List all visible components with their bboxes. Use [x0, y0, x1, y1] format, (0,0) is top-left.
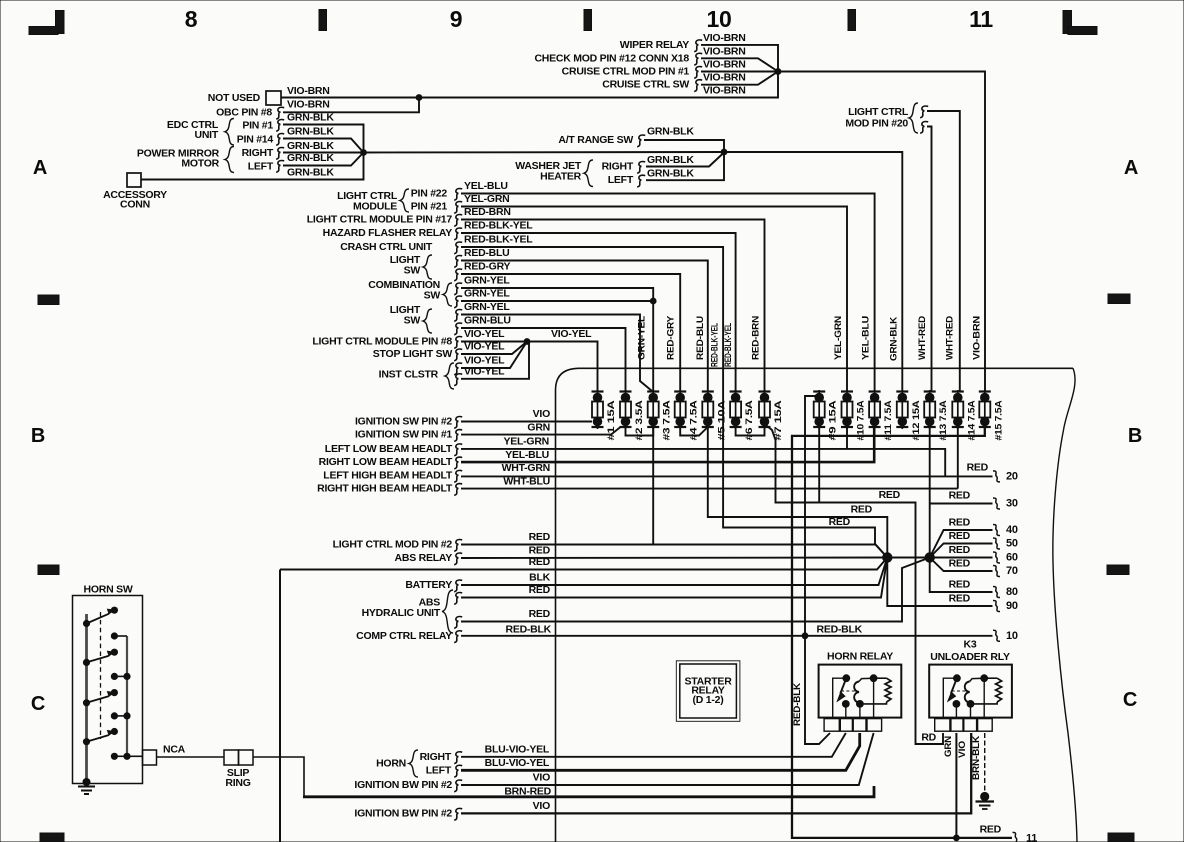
- connector hook CRUISE CTRL MOD PIN #1: [694, 67, 702, 79]
- node: VIO-BRN splice junction (wiper group): [775, 68, 782, 75]
- svg-text:VIO-YEL: VIO-YEL: [464, 341, 505, 353]
- svg-text:A: A: [33, 157, 47, 179]
- wire YEL-BLU to fuse 11: [461, 194, 875, 393]
- svg-text:YEL-BLU: YEL-BLU: [861, 316, 872, 360]
- terminal hook 11: [1013, 832, 1020, 842]
- svg-text:CRUISE CTRL MOD PIN #1: CRUISE CTRL MOD PIN #1: [562, 66, 690, 78]
- wire RED from fuse7/fuse6 to K3 unloader relay pin1: [765, 424, 944, 744]
- brace LIGHT CTRL MODULE: [400, 189, 409, 212]
- wire GRN from K3 pin2 to terminal 11 row: [955, 733, 957, 838]
- wire RED-BLK comp ctrl relay to terminal 10: [461, 635, 993, 637]
- svg-text:YEL-GRN: YEL-GRN: [833, 316, 844, 360]
- svg-text:GRN-BLK: GRN-BLK: [647, 154, 694, 166]
- svg-text:CRUISE CTRL SW: CRUISE CTRL SW: [602, 79, 689, 91]
- svg-text:RED: RED: [949, 579, 971, 591]
- node: splice X1: [882, 552, 892, 562]
- svg-text:RED: RED: [529, 584, 551, 596]
- brace WASHER JET HEATER: [584, 160, 593, 187]
- wire GRN-BLK washer left: [646, 152, 724, 180]
- wire stub fuse10 bottom: [846, 424, 848, 449]
- svg-text:STOP LIGHT SW: STOP LIGHT SW: [373, 348, 453, 360]
- svg-text:LEFT LOW BEAM HEADLT: LEFT LOW BEAM HEADLT: [325, 443, 453, 455]
- svg-text:#4 7.5A: #4 7.5A: [689, 400, 699, 441]
- svg-text:SW: SW: [424, 290, 441, 302]
- svg-text:RIGHT LOW BEAM HEADLT: RIGHT LOW BEAM HEADLT: [319, 456, 453, 468]
- horn switch output to NCA connector: [127, 755, 143, 757]
- connector hook IGNITION SW PIN #1: [454, 430, 462, 442]
- wire RED-BLK-YEL from CRASH CTRL UNIT (to splice): [461, 247, 875, 544]
- svg-text:RED-BLK-YEL: RED-BLK-YEL: [709, 323, 720, 367]
- terminal hook 70: [993, 566, 1000, 577]
- right edge tick B/C: [1107, 565, 1129, 575]
- svg-text:LIGHT CTRL MOD PIN #2: LIGHT CTRL MOD PIN #2: [333, 539, 453, 551]
- connector hook row y=206.5: [454, 202, 462, 214]
- connector hook PIN #14: [276, 134, 284, 146]
- terminal hook 40: [993, 525, 1000, 536]
- brace LIGHT CTRL MOD PIN #20: [909, 103, 918, 133]
- wire GRN-BLK from RIGHT: [283, 152, 364, 154]
- connector hook row y=260.5: [454, 256, 462, 268]
- svg-text:RED: RED: [529, 545, 551, 557]
- svg-text:RED-BLU: RED-BLU: [695, 316, 706, 360]
- svg-text:RED: RED: [949, 558, 971, 570]
- svg-text:#15 7.5A: #15 7.5A: [993, 400, 1003, 441]
- connector hook row y=274.0: [454, 269, 462, 281]
- svg-text:IGNITION SW PIN #1: IGNITION SW PIN #1: [355, 429, 452, 441]
- fuse F2 #2 3.5A: [620, 390, 645, 441]
- svg-text:RIGHT HIGH BEAM HEADLT: RIGHT HIGH BEAM HEADLT: [317, 483, 453, 495]
- svg-text:RED: RED: [949, 490, 971, 502]
- svg-text:#6 7.5A: #6 7.5A: [744, 400, 754, 441]
- node: RED-BLK junction: [802, 632, 809, 639]
- svg-text:RED: RED: [851, 504, 873, 516]
- terminal hook 10: [993, 630, 1000, 641]
- svg-text:RED-GRY: RED-GRY: [464, 261, 511, 273]
- svg-text:NCA: NCA: [163, 744, 186, 756]
- fuse F13 #13 7.5A: [924, 390, 949, 441]
- svg-text:60: 60: [1006, 552, 1018, 564]
- wire RED-BLK-YEL to fuse 6: [461, 233, 736, 392]
- svg-text:RED: RED: [949, 593, 971, 605]
- bottom-left corner bar: [40, 833, 64, 842]
- connector hook WIPER RELAY: [694, 40, 702, 52]
- connector hook OBC PIN #8: [276, 107, 284, 119]
- svg-text:RIGHT: RIGHT: [420, 751, 452, 763]
- wire GRN-YEL (light sw) to fuse 3: [461, 315, 653, 393]
- svg-text:GRN-YEL: GRN-YEL: [636, 316, 647, 360]
- svg-text:VIO-YEL: VIO-YEL: [464, 328, 505, 340]
- svg-text:K3: K3: [964, 639, 977, 651]
- connector ACCESSORY CONN (square): [127, 173, 141, 187]
- fuse F12 #12 15A: [896, 390, 921, 441]
- terminal hook 60: [993, 552, 1000, 563]
- svg-text:11: 11: [1026, 833, 1037, 842]
- wire VIO-BRN from CRUISE CTRL MOD PIN #1: [701, 71, 778, 73]
- wire BLU-VIO-YEL horn left to relay pin3: [461, 733, 860, 770]
- fuse F5 #5 10A: [702, 390, 727, 441]
- right edge tick A/B: [1108, 294, 1130, 304]
- svg-text:VIO: VIO: [957, 740, 968, 758]
- svg-text:VIO-BRN: VIO-BRN: [703, 85, 746, 97]
- corner mark top-right: [1063, 11, 1097, 35]
- wire YEL-GRN left low beam to fuse10 / terminal 20: [461, 449, 945, 477]
- svg-text:UNIT: UNIT: [195, 129, 219, 141]
- svg-text:VIO-BRN: VIO-BRN: [703, 59, 746, 71]
- horn switch left rail: [85, 614, 88, 782]
- connector hook IGNITION SW PIN #2: [454, 417, 462, 429]
- fuse F14 #14 7.5A: [952, 390, 977, 441]
- svg-text:BATTERY: BATTERY: [405, 579, 452, 591]
- relay K3 UNLOADER RLY: [929, 639, 1012, 732]
- connector hook LEFT LOW BEAM HEADLT: [454, 444, 462, 456]
- svg-text:#10 7.5A: #10 7.5A: [856, 400, 866, 441]
- svg-text:BLK: BLK: [529, 572, 550, 584]
- wire VIO-BRN from CRUISE CTRL SW: [701, 72, 778, 85]
- svg-text:GRN-BLK: GRN-BLK: [889, 317, 900, 361]
- wire BRN-BLK from K3 pin4 to ground: [984, 733, 986, 793]
- connector hook row y=354.0: [454, 349, 462, 361]
- svg-text:B: B: [31, 425, 45, 447]
- svg-text:YEL-GRN: YEL-GRN: [464, 193, 510, 205]
- fuse F4 #4 7.5A: [674, 390, 699, 441]
- svg-text:C: C: [1123, 689, 1137, 711]
- long vertical wire at far left: [279, 570, 281, 842]
- node: GRN-BLK junction A/T: [721, 149, 728, 156]
- wire GRN-YEL to fuse 3: [461, 288, 653, 392]
- corner mark top-left: [29, 11, 64, 35]
- svg-text:GRN-BLK: GRN-BLK: [647, 125, 694, 137]
- horn switch contact 3: [83, 699, 90, 706]
- svg-text:RED-BRN: RED-BRN: [464, 206, 511, 218]
- svg-text:WHT-RED: WHT-RED: [917, 316, 928, 360]
- connector hook PIN20 a: [920, 106, 928, 118]
- svg-text:MODULE: MODULE: [353, 201, 397, 213]
- svg-text:RING: RING: [225, 777, 250, 789]
- wire RED-BLU to fuse 5: [461, 261, 708, 393]
- svg-text:RED: RED: [529, 608, 551, 620]
- svg-text:IGNITION BW PIN #2: IGNITION BW PIN #2: [354, 779, 452, 791]
- wire X1 down to terminal 90: [887, 558, 992, 607]
- wire GRN-BLK from A/T RANGE SW: [644, 140, 724, 152]
- wire YEL-GRN to fuse 10: [461, 207, 847, 393]
- svg-text:GRN-YEL: GRN-YEL: [464, 275, 510, 287]
- wire BLK battery to splice X1: [461, 558, 887, 586]
- wire RED abs hydralic b to splice X2: [461, 558, 930, 622]
- wire stub fuse14 bottom: [957, 424, 959, 489]
- wire VIO-BRN main run to fuse 15: [778, 72, 985, 393]
- wire from slip ring to BRN-RED row: [253, 757, 304, 796]
- svg-text:A/T RANGE SW: A/T RANGE SW: [558, 134, 633, 146]
- svg-text:PIN #21: PIN #21: [411, 201, 448, 213]
- terminal hook 80: [993, 587, 1000, 598]
- top ruler tick between 8 and 9: [319, 10, 327, 31]
- wire GRN-BLK bus to A/T junction: [364, 151, 725, 154]
- left edge tick A/B: [38, 295, 59, 305]
- svg-text:GRN: GRN: [527, 421, 550, 433]
- svg-text:GRN-YEL: GRN-YEL: [464, 301, 510, 313]
- terminal hook 30: [993, 498, 1000, 509]
- wire RED from fuse5 to splice X1: [708, 424, 888, 558]
- svg-text:GRN-YEL: GRN-YEL: [464, 288, 510, 300]
- svg-text:BRN-BLK: BRN-BLK: [971, 736, 982, 780]
- svg-text:PIN #1: PIN #1: [242, 120, 273, 132]
- svg-text:VIO-BRN: VIO-BRN: [703, 32, 746, 44]
- svg-text:50: 50: [1006, 538, 1018, 550]
- svg-text:RED: RED: [949, 530, 971, 542]
- svg-text:RIGHT: RIGHT: [242, 147, 274, 159]
- svg-text:OBC PIN #8: OBC PIN #8: [216, 106, 272, 118]
- svg-text:VIO-BRN: VIO-BRN: [703, 72, 746, 84]
- svg-text:11: 11: [969, 6, 993, 32]
- fuse F7 #7 15A: [759, 390, 784, 441]
- wire VIO ignition bw pin2 (2) to K3 pin3: [461, 733, 971, 813]
- wire bracket fuse4-fuse5 bottoms: [680, 424, 708, 436]
- connector hook row y=301.0: [454, 296, 462, 308]
- svg-text:WIPER RELAY: WIPER RELAY: [620, 39, 689, 51]
- svg-text:SW: SW: [404, 265, 421, 277]
- node: VIO-YEL junction: [524, 338, 531, 345]
- brace LIGHT SW upper: [423, 255, 432, 279]
- connector hook row y=247.0: [454, 242, 462, 254]
- svg-text:HORN: HORN: [376, 758, 406, 770]
- svg-text:90: 90: [1006, 600, 1018, 612]
- connector hook row y=368.0: [454, 363, 462, 375]
- svg-text:10: 10: [706, 6, 731, 32]
- svg-text:#5 10A: #5 10A: [716, 400, 726, 441]
- svg-text:LEFT HIGH BEAM HEADLT: LEFT HIGH BEAM HEADLT: [323, 469, 453, 481]
- connector NOT USED (square): [266, 91, 281, 105]
- connector hook RIGHT HIGH BEAM HEADLT: [454, 484, 462, 496]
- svg-text:IGNITION SW PIN #2: IGNITION SW PIN #2: [355, 416, 452, 428]
- terminal hook 20: [993, 471, 1000, 482]
- svg-text:GRN-BLK: GRN-BLK: [287, 126, 334, 138]
- svg-text:RED-BLK: RED-BLK: [506, 624, 552, 636]
- svg-text:RED-BLK-YEL: RED-BLK-YEL: [464, 220, 533, 232]
- svg-text:SW: SW: [404, 315, 421, 327]
- svg-text:GRN-BLK: GRN-BLK: [647, 167, 694, 179]
- wire GRN-BLK from ACCESSORY CONN: [141, 153, 364, 180]
- svg-text:RED: RED: [949, 544, 971, 556]
- svg-text:HEATER: HEATER: [540, 171, 582, 183]
- svg-text:CONN: CONN: [120, 199, 150, 211]
- svg-text:LIGHT CTRL MODULE PIN #8: LIGHT CTRL MODULE PIN #8: [312, 336, 452, 348]
- svg-text:RED-BLU: RED-BLU: [464, 247, 510, 259]
- svg-text:20: 20: [1006, 470, 1018, 482]
- wire stub fuse3 bottom to row: [652, 424, 654, 545]
- connector hook PIN #1: [276, 120, 284, 132]
- svg-text:9: 9: [450, 6, 463, 32]
- connector hook RIGHT washer: [637, 162, 645, 174]
- ground symbol below K3: [980, 792, 989, 801]
- wire RED from fuse15 to terminal 11: [792, 424, 1012, 838]
- connector hook LEFT (mirror): [276, 161, 284, 173]
- svg-text:PIN #22: PIN #22: [411, 188, 448, 200]
- svg-text:#9 15A: #9 15A: [828, 400, 838, 441]
- svg-text:#2 3.5A: #2 3.5A: [634, 400, 644, 441]
- wire VIO-YEL stop light sw: [461, 342, 527, 355]
- wire VIO-YEL to fuse 1: [461, 342, 598, 393]
- svg-text:BLU-VIO-YEL: BLU-VIO-YEL: [485, 757, 550, 769]
- svg-text:GRN-BLK: GRN-BLK: [287, 152, 334, 164]
- svg-text:LIGHT CTRL MODULE PIN #17: LIGHT CTRL MODULE PIN #17: [307, 214, 453, 226]
- svg-text:BRN-RED: BRN-RED: [504, 785, 551, 797]
- svg-text:RED: RED: [879, 489, 901, 501]
- svg-text:RED: RED: [980, 824, 1002, 836]
- connector hook row y=288.0: [454, 283, 462, 295]
- wire X2 down to terminal 80: [930, 558, 993, 593]
- horn switch box: [73, 596, 143, 784]
- wire VIO-BRN from WIPER RELAY: [701, 45, 778, 72]
- wire BLU-VIO-YEL horn right to relay pin2: [461, 733, 846, 757]
- fuse F1 #1 15A: [592, 390, 617, 441]
- svg-text:HYDRALIC UNIT: HYDRALIC UNIT: [362, 607, 441, 619]
- svg-text:HORN SW: HORN SW: [84, 584, 133, 596]
- horn switch contact 1: [83, 620, 90, 627]
- node: GRN-BLK junction mirror group: [360, 149, 367, 156]
- svg-text:RED-BLK: RED-BLK: [817, 624, 863, 636]
- svg-text:RED: RED: [829, 516, 851, 528]
- wire RED abs relay through splice X1 X2 to terminal 60: [461, 557, 993, 560]
- connector hook CHECK MOD PIN #12 CONN X18: [694, 53, 702, 65]
- wire VIO-BRN from CHECK MOD PIN #12 CONN X18: [701, 58, 778, 71]
- wire X2 to terminal 50: [930, 544, 993, 558]
- wire RED-BLK down to horn relay pin1: [805, 636, 830, 744]
- torn page edge: [1053, 368, 1077, 842]
- brace COMBINATION SW: [443, 283, 452, 306]
- svg-text:PIN #14: PIN #14: [237, 134, 274, 146]
- wire VIO-BRN from NOT USED: [281, 72, 778, 98]
- svg-text:(D 1-2): (D 1-2): [693, 694, 724, 706]
- wire YEL-BLU right low beam to fuse 11: [461, 424, 874, 462]
- svg-text:70: 70: [1006, 565, 1018, 577]
- svg-text:RD: RD: [921, 732, 936, 744]
- svg-text:MOD PIN #20: MOD PIN #20: [845, 118, 908, 130]
- fuse F11 #11 7.5A: [869, 390, 894, 441]
- connector hook row y=219.5: [454, 215, 462, 227]
- connector hook LEFT washer: [637, 175, 645, 187]
- starter relay box: [680, 664, 737, 718]
- brace HORN: [409, 750, 418, 777]
- svg-text:#12 15A: #12 15A: [911, 400, 921, 441]
- wire VIO ignition sw pin2 to fuse1: [461, 421, 592, 423]
- svg-text:GRN-BLK: GRN-BLK: [287, 140, 334, 152]
- connector hook A/T RANGE SW: [637, 135, 645, 147]
- svg-text:VIO: VIO: [533, 408, 550, 420]
- svg-text:NOT USED: NOT USED: [208, 92, 261, 104]
- wire WHT-BLU right high beam: [461, 488, 958, 490]
- fuse F6 #6 7.5A: [730, 390, 755, 441]
- horn switch right rail: [126, 636, 128, 757]
- connector hook row y=233.0: [454, 228, 462, 240]
- svg-text:IGNITION BW PIN #2: IGNITION BW PIN #2: [354, 807, 452, 819]
- connector hook row y=378.8: [454, 374, 462, 386]
- fuse F9 #9 15A: [813, 390, 838, 441]
- svg-text:COMP CTRL RELAY: COMP CTRL RELAY: [356, 630, 452, 642]
- wire fuse9 bottom down to K3 feed line: [818, 424, 820, 503]
- wire VIO-BRN from OBC PIN #8: [283, 98, 419, 113]
- terminal hook 50: [993, 538, 1000, 549]
- wire X2 to terminal 70: [930, 558, 993, 572]
- svg-text:CHECK MOD PIN #12 CONN X18: CHECK MOD PIN #12 CONN X18: [534, 52, 689, 64]
- wire RED-BRN to fuse 7: [461, 220, 765, 393]
- wire fuse9 top bracket down to RED-BLK row: [805, 396, 816, 636]
- brace INST CLSTR: [445, 363, 454, 389]
- svg-text:GRN: GRN: [943, 736, 954, 757]
- connector hook RIGHT LOW BEAM HEADLT: [454, 457, 462, 469]
- svg-text:BLU-VIO-YEL: BLU-VIO-YEL: [485, 743, 550, 755]
- connector hook CRUISE CTRL SW: [694, 80, 702, 92]
- wire RED fuse13 to terminal 30 and splice X2: [929, 424, 931, 558]
- svg-text:YEL-BLU: YEL-BLU: [464, 180, 508, 192]
- svg-text:GRN-BLU: GRN-BLU: [464, 315, 511, 327]
- node: splice X2: [925, 552, 935, 562]
- wire RED light ctrl mod pin2 to splice X1: [461, 545, 887, 558]
- wire BRN-RED row: [303, 786, 874, 797]
- svg-text:HAZARD FLASHER RELAY: HAZARD FLASHER RELAY: [323, 227, 453, 239]
- connector hook RIGHT (mirror): [276, 148, 284, 160]
- wire X2 to terminal 40: [930, 530, 993, 558]
- svg-text:RED-BLK-YEL: RED-BLK-YEL: [723, 323, 734, 367]
- connector hook PIN20 b: [920, 122, 928, 134]
- node: junction on terminal 11 row: [953, 835, 960, 842]
- wire GRN ignition sw pin1 to fuses 2-3: [461, 427, 621, 435]
- svg-text:RED: RED: [949, 517, 971, 529]
- svg-text:30: 30: [1006, 498, 1018, 510]
- wire GRN-BLK from PIN #1: [283, 125, 364, 153]
- svg-text:RED: RED: [529, 556, 551, 568]
- brace EDC CTRL UNIT: [225, 119, 234, 146]
- svg-text:VIO-BRN: VIO-BRN: [287, 98, 330, 110]
- wire WHT-GRN left high beam to terminal 20: [461, 475, 993, 477]
- svg-text:A: A: [1124, 157, 1138, 179]
- svg-text:RED-BLK-YEL: RED-BLK-YEL: [464, 234, 533, 246]
- horn switch contact 4: [83, 738, 90, 745]
- wire bracket fuse6-fuse7 bottoms: [736, 424, 765, 436]
- svg-text:YEL-GRN: YEL-GRN: [504, 436, 550, 448]
- svg-text:B: B: [1128, 425, 1142, 447]
- connector hook row y=341.5: [454, 337, 462, 349]
- fuse F15 #15 7.5A: [979, 390, 1004, 441]
- top ruler tick between 10 and 11: [848, 10, 856, 31]
- top ruler tick between 9 and 10: [584, 10, 592, 31]
- connector hook LEFT HIGH BEAM HEADLT: [454, 470, 462, 482]
- svg-text:VIO-BRN: VIO-BRN: [287, 85, 330, 97]
- wire RED abs hydralic a to splice X1: [461, 558, 887, 598]
- wire RED-GRY to fuse 4: [461, 274, 680, 392]
- wire WHT-RED to fuse 14: [927, 111, 960, 392]
- wire VIO-YEL inst clstr b: [461, 342, 529, 379]
- svg-text:VIO: VIO: [533, 800, 550, 812]
- left edge tick B/C: [38, 565, 59, 575]
- svg-text:WHT-RED: WHT-RED: [945, 316, 956, 360]
- svg-text:RED: RED: [529, 531, 551, 543]
- svg-text:WHT-GRN: WHT-GRN: [502, 462, 550, 474]
- horn switch dashed rail: [100, 612, 102, 739]
- svg-text:8: 8: [185, 6, 198, 32]
- wire RED crash line into splice X1: [875, 544, 887, 558]
- svg-text:VIO: VIO: [533, 772, 550, 784]
- svg-text:RED-BRN: RED-BRN: [750, 316, 761, 360]
- svg-text:#14 7.5A: #14 7.5A: [966, 400, 976, 441]
- bottom-right corner bar: [1108, 833, 1134, 842]
- fuse box outline (top edge + rounded corner + left edge): [556, 368, 1074, 842]
- svg-text:10: 10: [1006, 630, 1018, 642]
- wire GRN-BLK from PIN #14: [283, 139, 364, 153]
- svg-text:YEL-BLU: YEL-BLU: [505, 449, 549, 461]
- svg-text:LEFT: LEFT: [426, 764, 452, 776]
- svg-text:LEFT: LEFT: [248, 161, 274, 173]
- svg-text:40: 40: [1006, 524, 1018, 536]
